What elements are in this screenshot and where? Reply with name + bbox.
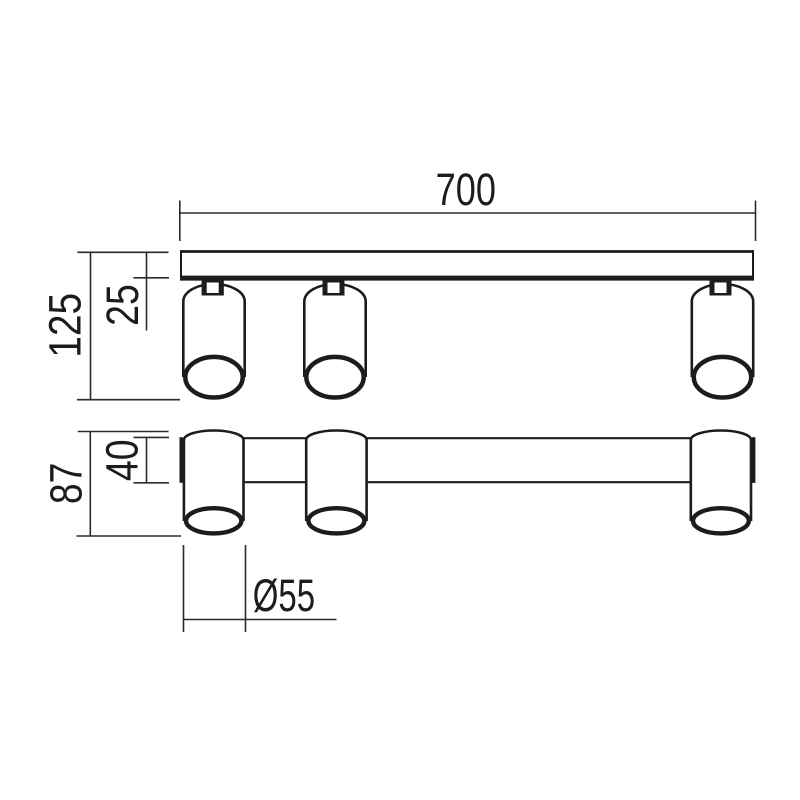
bar right edge [752, 250, 754, 280]
stem [710, 278, 732, 296]
dim 25: bottom tick [134, 277, 170, 279]
bar right end cap [752, 437, 756, 483]
dim 25: vertical line [146, 252, 148, 330]
dim Ø55: left extension [183, 545, 185, 632]
dim 700: left extension [179, 201, 181, 242]
bottom ellipse [306, 357, 363, 398]
svg-text:700: 700 [436, 164, 496, 215]
dim Ø55: right extension [245, 545, 247, 632]
svg-text:25: 25 [97, 284, 148, 326]
dim 87: vertical line [89, 432, 91, 537]
svg-text:Ø55: Ø55 [253, 571, 315, 622]
bar top edge [180, 250, 754, 253]
bottom ellipse [185, 357, 242, 398]
dim 700: right extension [755, 201, 757, 242]
dim 87: bottom tick [77, 535, 182, 537]
bar bottom edge segment 1 [243, 481, 307, 483]
cylinder body [304, 284, 365, 377]
bar left end cap [179, 437, 182, 483]
spotlight 1 (bottom view) [184, 431, 244, 534]
dim 87: top tick [78, 431, 169, 433]
dim 125: vertical line [90, 252, 92, 399]
cylinder body [183, 284, 244, 377]
bar top edge segment 2 [366, 437, 691, 439]
spotlight 3 (top view) [692, 278, 753, 398]
dim 40: top tick [134, 436, 170, 438]
bar top edge segment 1 [243, 437, 307, 439]
spotlight 2 (bottom view) [306, 431, 366, 534]
spotlight 1 (top view) [183, 278, 244, 398]
bar bottom edge (thick) [180, 276, 754, 281]
dim 125/25: shared top tick [78, 251, 169, 253]
dim 40: bottom tick [134, 482, 170, 484]
spotlight 2 (top view) [304, 278, 365, 398]
spotlight 3 (bottom view) [691, 431, 751, 534]
dim 125: bottom tick [77, 399, 180, 401]
stem [323, 278, 345, 296]
bar left edge [180, 250, 182, 280]
dim 700: dimension line [180, 212, 756, 214]
svg-text:40: 40 [96, 439, 147, 481]
stem [202, 278, 224, 296]
bottom ellipse [694, 357, 751, 398]
dim 40: vertical line [146, 437, 148, 482]
stem repaint over dome [202, 278, 224, 296]
svg-text:87: 87 [40, 463, 92, 505]
svg-text:125: 125 [41, 293, 92, 358]
dim Ø55: dimension line [184, 619, 337, 621]
cylinder body [692, 284, 753, 377]
bar bottom edge segment 2 [366, 481, 691, 483]
